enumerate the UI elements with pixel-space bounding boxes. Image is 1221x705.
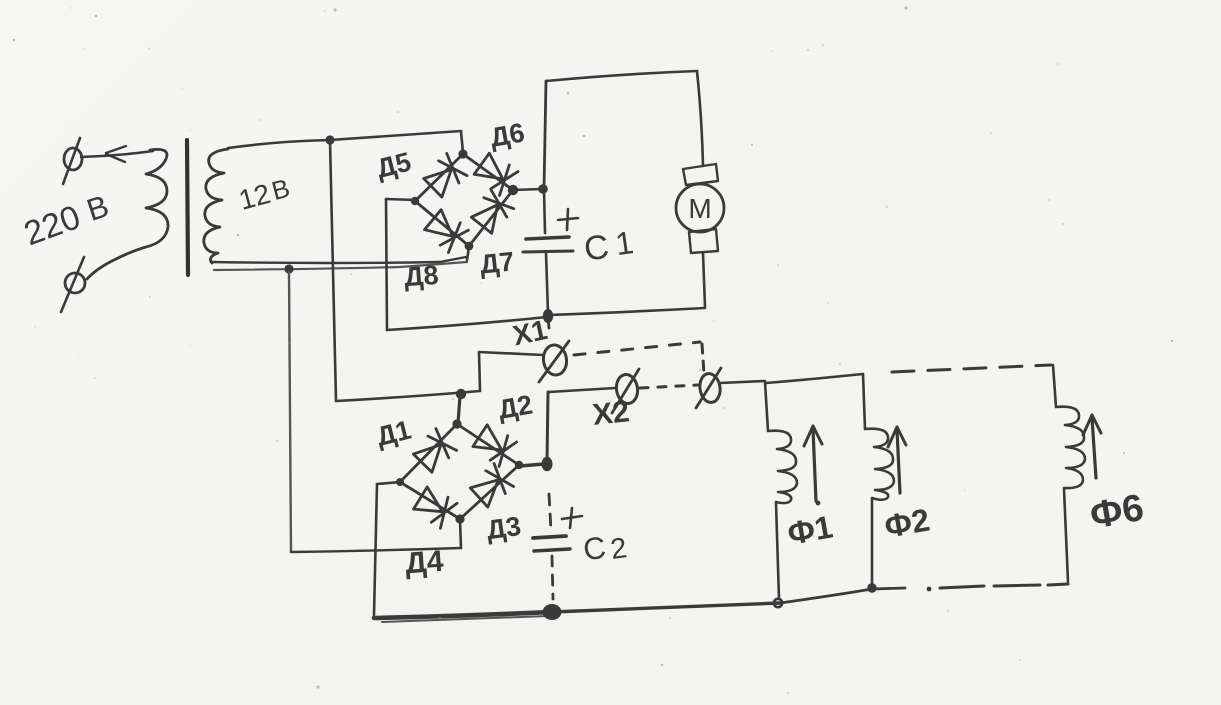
svg-text:C: C [582,228,612,269]
svg-text:Д2: Д2 [496,389,535,424]
svg-text:X1: X1 [510,314,550,351]
svg-text:M: M [688,193,711,224]
svg-text:220: 220 [19,198,85,253]
svg-text:Д8: Д8 [403,260,439,292]
svg-text:X2: X2 [591,395,631,432]
svg-text:C: C [581,530,608,568]
svg-text:Ф6: Ф6 [1087,487,1147,538]
svg-text:B: B [83,188,113,228]
svg-text:Ф2: Ф2 [882,502,933,545]
svg-text:Д6: Д6 [488,117,527,152]
svg-text:12: 12 [235,178,273,216]
svg-text:2: 2 [609,532,629,566]
svg-text:Д3: Д3 [485,511,523,545]
svg-text:Д5: Д5 [374,147,415,184]
svg-text:1: 1 [613,224,636,262]
svg-text:Д1: Д1 [374,415,415,452]
svg-text:B: B [268,173,293,206]
svg-text:Д7: Д7 [478,246,515,279]
svg-text:Ф1: Ф1 [785,509,836,552]
